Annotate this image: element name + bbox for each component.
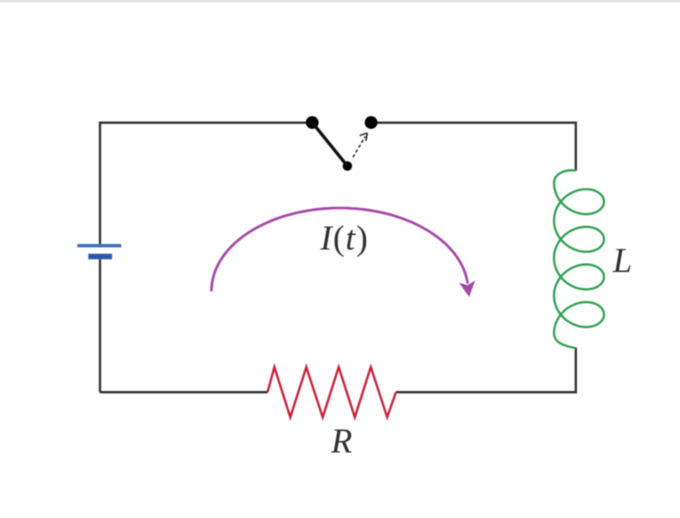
switch S1 right contact dot [365, 116, 378, 129]
svg-text:L: L [612, 242, 632, 280]
wire bottom-right segment [396, 348, 576, 393]
switch motion arrowhead [360, 133, 368, 141]
current arc arrowhead [460, 282, 474, 296]
switch S1 blade [312, 123, 347, 167]
resistor R zigzag [268, 367, 396, 417]
switch S1 pivot dot [343, 161, 352, 170]
wire top-right segment [371, 123, 576, 171]
inductor L coil [554, 170, 604, 348]
svg-text:I(t): I(t) [319, 219, 368, 257]
wire bottom-left segment [100, 391, 268, 393]
battery B1 top plate [77, 244, 121, 247]
svg-text:R: R [330, 422, 352, 460]
current direction arc I(t) [212, 208, 468, 291]
switch S1 left contact dot [306, 116, 319, 129]
battery B1 bottom plate [88, 254, 112, 260]
switch motion dashed arrow [353, 136, 365, 157]
wire top-left segment [100, 123, 312, 393]
